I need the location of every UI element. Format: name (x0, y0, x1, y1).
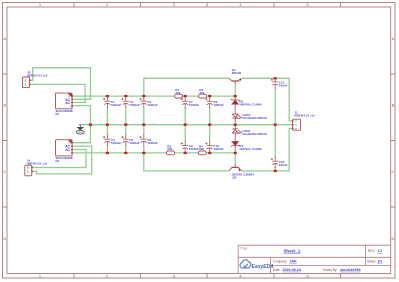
svg-text:EasyEDA: EasyEDA (252, 264, 275, 270)
svg-text:B: B (3, 103, 6, 108)
svg-text:HDR-M-2.54_1x2: HDR-M-2.54_1x2 (27, 73, 48, 77)
svg-text:2020-06-24: 2020-06-24 (283, 268, 301, 272)
svg-text:1/1: 1/1 (377, 260, 382, 264)
svg-text:1N4742A_C14065: 1N4742A_C14065 (239, 103, 262, 107)
svg-text:300: 300 (167, 147, 172, 151)
svg-text:Date:: Date: (273, 268, 281, 272)
svg-text:300: 300 (199, 147, 204, 151)
svg-text:C: C (391, 169, 394, 174)
svg-text:100uF: 100uF (279, 163, 288, 167)
svg-text:D: D (391, 236, 394, 241)
svg-text:1N4742A_C14065: 1N4742A_C14065 (239, 147, 262, 151)
svg-text:013-2011SO-5R06-62: 013-2011SO-5R06-62 (243, 133, 268, 136)
svg-text:D1: D1 (56, 112, 60, 116)
svg-text:HDR-M-2.54_1x2: HDR-M-2.54_1x2 (27, 161, 48, 165)
svg-text:Sheet_1: Sheet_1 (284, 249, 301, 254)
svg-text:Q2: Q2 (232, 175, 236, 179)
svg-text:1000uF: 1000uF (189, 103, 200, 107)
svg-text:BD139: BD139 (232, 71, 242, 75)
svg-text:013-2011SO-5R06-62: 013-2011SO-5R06-62 (243, 117, 268, 120)
svg-text:1000uF: 1000uF (147, 141, 158, 145)
svg-text:A: A (392, 36, 395, 41)
svg-text:HDR-M-2.54_1x3: HDR-M-2.54_1x3 (294, 114, 315, 118)
svg-text:GND: GND (78, 132, 83, 134)
svg-text:Company:: Company: (273, 260, 288, 264)
svg-text:1.0: 1.0 (377, 249, 382, 253)
svg-text:-: - (69, 104, 70, 108)
svg-text:1000uF: 1000uF (129, 141, 140, 145)
svg-text:300: 300 (199, 91, 204, 95)
svg-text:JAK: JAK (290, 260, 298, 264)
svg-text:1000uF: 1000uF (213, 103, 224, 107)
svg-text:TITLE:: TITLE: (240, 246, 248, 250)
svg-text:1000uF: 1000uF (111, 141, 122, 145)
svg-text:1000uF: 1000uF (111, 103, 122, 107)
svg-text:C: C (3, 169, 6, 174)
svg-text:-: - (69, 151, 70, 155)
svg-text:REV:: REV: (368, 249, 375, 253)
svg-text:100uF: 100uF (279, 84, 288, 88)
svg-text:D: D (3, 236, 6, 241)
svg-text:D2: D2 (56, 159, 60, 163)
svg-text:Drawn By:: Drawn By: (323, 268, 338, 272)
svg-text:1000uF: 1000uF (129, 103, 140, 107)
svg-text:jaculek1966: jaculek1966 (340, 268, 361, 272)
svg-text:300: 300 (175, 91, 180, 95)
svg-text:1000uF: 1000uF (189, 147, 200, 151)
svg-text:A: A (3, 36, 6, 41)
svg-text:1000uF: 1000uF (213, 147, 224, 151)
svg-text:Sheet:: Sheet: (367, 260, 376, 264)
svg-text:B: B (392, 103, 395, 108)
svg-text:1000uF: 1000uF (147, 103, 158, 107)
